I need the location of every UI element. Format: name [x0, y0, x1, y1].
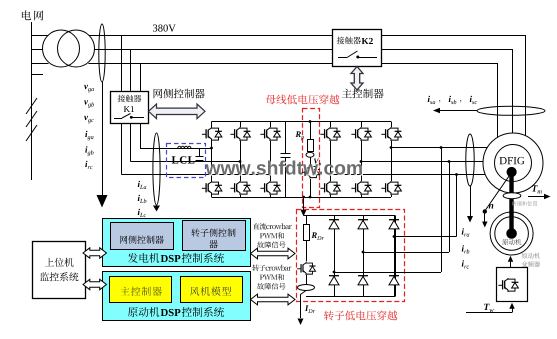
wire bus B to K1 [130, 49, 132, 91]
CT ring stator current [477, 106, 545, 115]
node phase c leg3 [269, 173, 272, 176]
inductor in LCL [178, 146, 191, 148]
label 转速和位置 speed and position [512, 201, 538, 206]
bus wire phase A 380V [89, 35, 526, 37]
i_s measurement arrow [439, 110, 477, 112]
arrow host to prime mover DSP [83, 279, 107, 289]
grid line break slashes [26, 98, 37, 141]
label v_ga [84, 85, 88, 89]
label i_ra [462, 228, 464, 234]
wire grid to transformer phase B [32, 49, 43, 51]
DC link capacitor C1 [285, 122, 287, 154]
rotor phase c wire [329, 173, 332, 176]
resistor R_Dr [304, 225, 310, 241]
DFIG machine [483, 133, 543, 193]
CT ring crowbar [306, 275, 308, 285]
wire grid to transformer phase C [32, 63, 49, 65]
motor inverter box [497, 268, 528, 302]
label R_Dr [312, 232, 317, 238]
stator wire A corner [525, 35, 527, 136]
generator DSP system box [103, 219, 251, 267]
crowbar top rail [304, 215, 396, 217]
label 母线低电压穿越 [266, 95, 340, 105]
I_Dr measurement wire and arrow [301, 291, 307, 319]
rotor phase b wire [360, 160, 363, 163]
i_r measurement arrow [470, 186, 472, 216]
crowbar diode column 1 wire [334, 216, 336, 296]
label n [489, 204, 494, 209]
label i_sa i_sb i_sc [428, 96, 430, 102]
IGBT Q9 bottom with diode [260, 181, 280, 195]
label T_m [532, 185, 537, 191]
crowbar diode column 2 wire [363, 216, 365, 296]
chopper IGBT V_p [310, 157, 312, 165]
phase c wire to converter [122, 174, 271, 176]
arrow DSP to rotor crowbar [251, 294, 296, 305]
rotor crowbar box 转子低电压穿越 [297, 210, 405, 302]
T_w wire [466, 312, 512, 314]
label 原动机DSP控制系统 [128, 307, 159, 317]
wire bus A to K1 [121, 35, 123, 91]
host computer box 上位机监控系统 [33, 242, 86, 299]
wire grid to transformer phase A [32, 35, 49, 37]
CT ring on grid bus [99, 24, 105, 82]
crowbar link wire b [448, 160, 451, 163]
label 直流crowbar PWM和 故障信号 [253, 223, 292, 230]
converter leg 5 wire [361, 122, 363, 128]
label i_rc [462, 260, 464, 266]
label 转子低电压穿越 [324, 311, 397, 321]
resistor R_p [308, 140, 314, 152]
crowbar tap c [333, 271, 336, 274]
shaft joint dot DFIG [507, 167, 516, 176]
label T_w [484, 304, 489, 310]
LCL filter box [167, 144, 206, 178]
label i_La [138, 181, 140, 187]
converter leg 2 wire [240, 122, 242, 128]
contactor K2 [333, 30, 382, 67]
crowbar tap b [362, 251, 365, 254]
node phase a leg1 [210, 147, 213, 150]
IGBT Q4 top with diode [320, 127, 340, 141]
stator wire C corner [497, 63, 499, 138]
bus wire phase C 380V [88, 63, 497, 65]
signal arrow K1 to grid-side controller [149, 104, 206, 119]
main controller block [110, 277, 172, 303]
converter leg 3 wire [270, 122, 272, 128]
shaft joint dot motor [507, 229, 517, 239]
fan model block [181, 277, 243, 303]
CT ring rotor current [466, 134, 474, 186]
stator wire B corner [512, 49, 514, 133]
label V_p [314, 159, 319, 164]
diode D2 top [358, 220, 368, 229]
IGBT Q10 bottom with diode [320, 181, 340, 195]
label 转子crowbar PWM和 故障信号 [252, 264, 291, 271]
label i_ga [85, 131, 87, 137]
crowbar right rail [395, 216, 397, 296]
wire DC- to rotor crowbar [303, 197, 305, 210]
label i_rb [462, 245, 464, 251]
i_L measurement arrow [156, 205, 158, 207]
IGBT Q11 bottom with diode [351, 181, 371, 195]
chopper crowbar box 母线低电压穿越 [303, 109, 320, 208]
contactor K1 [111, 92, 149, 124]
crowbar chain top wire [306, 216, 308, 224]
label R_p [296, 131, 301, 137]
DC bus negative rail [212, 197, 392, 199]
IGBT Q3 top with diode [260, 127, 280, 141]
bus wire phase B 380V [94, 49, 512, 51]
label 原动机变频器 inverter name [522, 253, 540, 259]
wire K1 phase c down [121, 123, 123, 175]
label 主控制器 main controller [342, 89, 384, 99]
net label: grid 电网 [22, 10, 43, 20]
converter leg 6 wire [391, 122, 393, 128]
IGBT Q12 bottom with diode [381, 181, 401, 195]
grid measurement arrow [102, 82, 104, 196]
inverter to motor arrow [510, 262, 512, 268]
rotor phase a wire [390, 146, 393, 149]
rotor-side controller block [183, 221, 246, 251]
crowbar link wire a [440, 146, 443, 149]
speed signal line [485, 174, 511, 211]
grid bus vertical wire [31, 22, 33, 180]
arrow host to generator DSP [83, 248, 107, 258]
node chopper bottom [309, 196, 312, 199]
label 网侧控制器 grid-side controller [154, 89, 205, 99]
crowbar chain mid wire [306, 241, 308, 262]
IGBT Q8 bottom with diode [230, 181, 250, 195]
T_m arrow [528, 196, 545, 198]
speed sensor ring on shaft [503, 193, 521, 199]
label i_gb [85, 146, 87, 152]
grid-side controller block [111, 223, 174, 250]
wire bus C to K1 [140, 63, 142, 91]
phase a wire to converter [140, 148, 212, 150]
node phase b leg2 [239, 160, 242, 163]
prime mover DSP system box [103, 272, 251, 321]
crowbar IGBT [297, 262, 315, 275]
wire K1 phase b down [130, 123, 132, 162]
IGBT Q1 top with diode [202, 127, 222, 141]
label v_gb [84, 100, 88, 104]
capacitor in LCL [199, 148, 201, 157]
wire K1 phase a down [140, 123, 142, 148]
label i_gc [85, 161, 87, 167]
node chopper top [309, 120, 312, 123]
IGBT Q5 top with diode [351, 127, 371, 141]
IGBT Q7 bottom with diode [202, 181, 222, 195]
label LCL [172, 156, 195, 163]
diode D4 bottom [329, 276, 339, 285]
crowbar diode column 3 wire [394, 216, 396, 296]
label i_Lc [138, 209, 140, 215]
prime mover motor [490, 212, 533, 255]
IGBT Q2 top with diode [230, 127, 250, 141]
crowbar bottom rail [306, 296, 396, 298]
DC bus positive rail [212, 121, 392, 123]
phase b wire to converter [131, 161, 241, 163]
shaft [509, 172, 513, 234]
CT ring on LCL feed [153, 133, 160, 205]
crowbar link wire c [455, 173, 458, 176]
label 发电机DSP控制系统 [128, 253, 160, 263]
label i_Lb [138, 195, 140, 201]
diode D5 bottom [358, 276, 368, 285]
diode D1 top [329, 220, 339, 229]
watermark [207, 162, 364, 176]
IGBT Q6 top with diode [381, 127, 401, 141]
label v_gc [84, 116, 88, 120]
arrow DSP to chopper crowbar [251, 248, 296, 259]
signal arrow K2 to main controller [351, 67, 363, 91]
n arrow [484, 214, 486, 223]
chopper resistor R_p wire [310, 122, 312, 140]
grid neutral stub [32, 74, 44, 76]
CT ring chopper [306, 152, 314, 157]
converter leg 4 wire [330, 122, 332, 128]
label I_Dr [305, 305, 309, 311]
converter leg 1 wire [211, 122, 213, 128]
transformer T1 [43, 30, 80, 67]
diode D3 top [389, 220, 399, 229]
crowbar tap a [393, 235, 396, 238]
diode D6 bottom [389, 276, 399, 285]
label 380V [153, 25, 176, 32]
